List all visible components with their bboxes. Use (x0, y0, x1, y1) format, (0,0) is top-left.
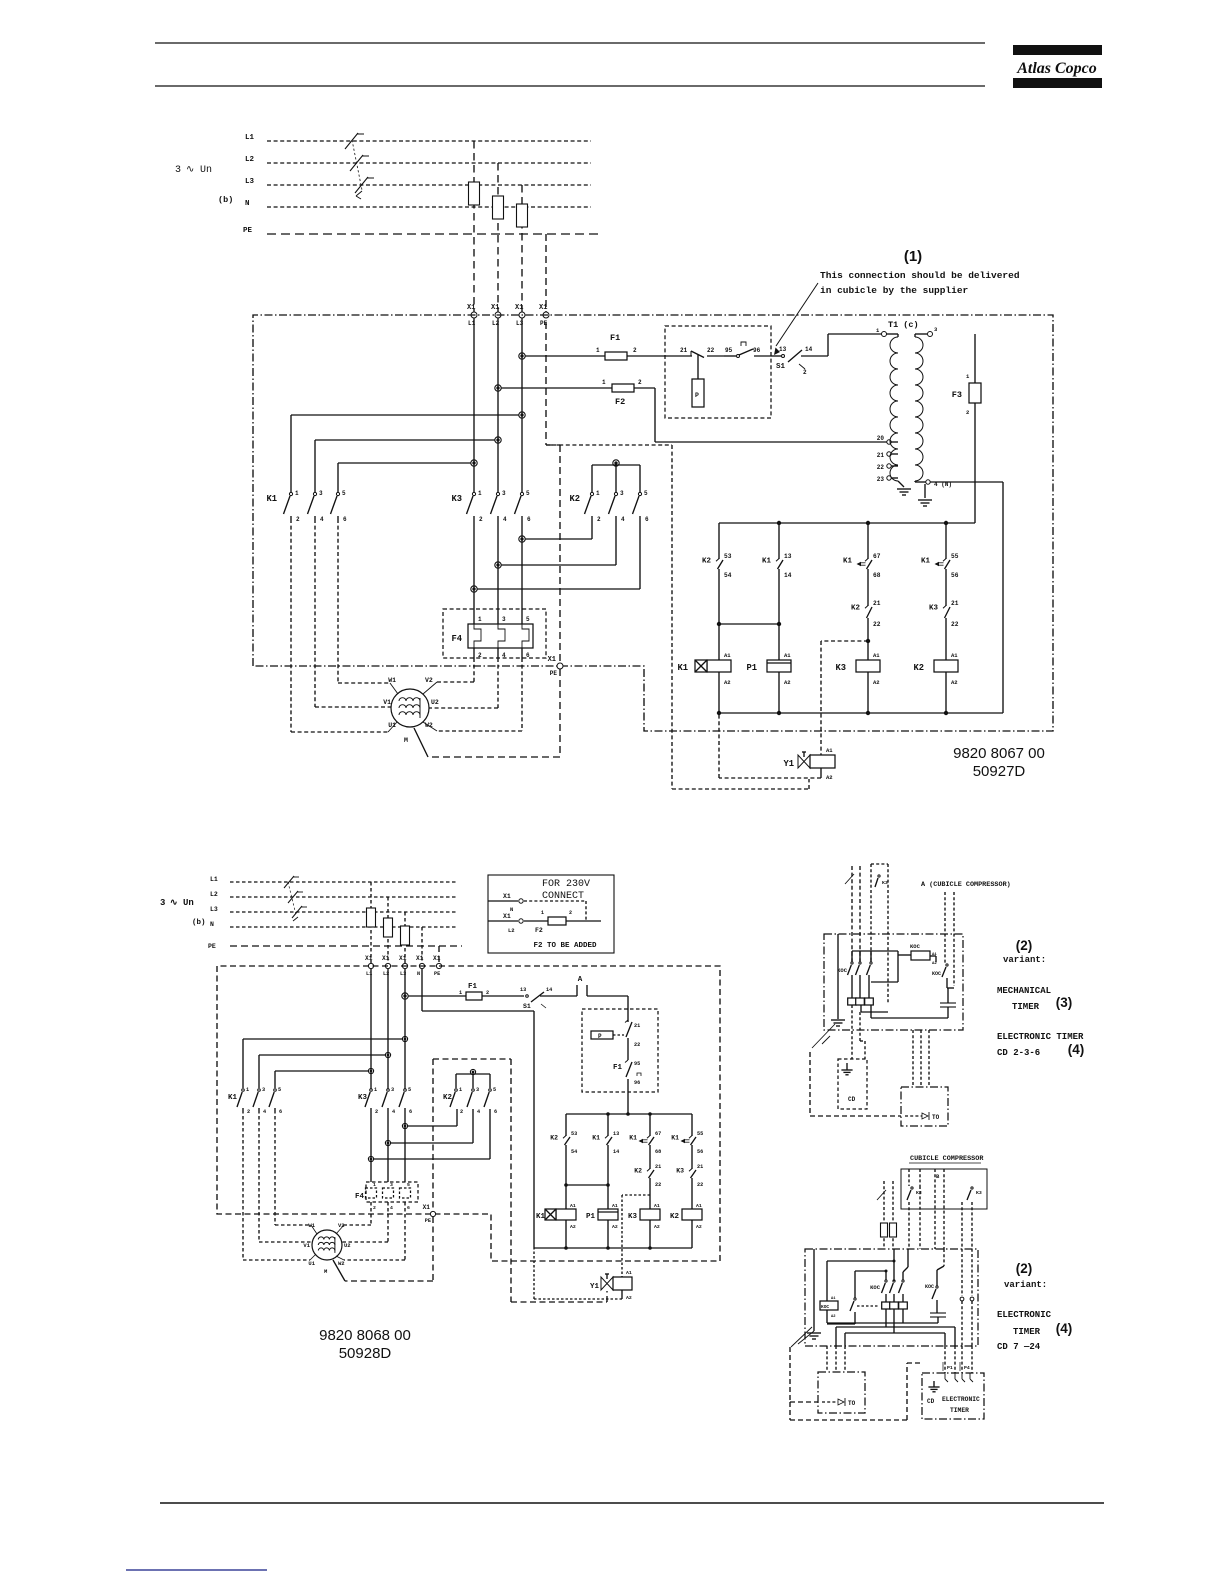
svg-text:PE: PE (434, 971, 440, 977)
svg-text:1: 1 (478, 616, 482, 623)
svg-text:B: B (936, 1173, 940, 1180)
svg-text:A2: A2 (654, 1224, 660, 1230)
svg-text:(b): (b) (192, 919, 206, 927)
svg-text:2: 2 (569, 910, 572, 916)
svg-text:P1: P1 (746, 663, 757, 673)
svg-text:A1: A1 (612, 1203, 618, 1209)
svg-text:A1: A1 (696, 1203, 702, 1209)
svg-text:1: 1 (459, 1087, 462, 1093)
svg-text:A1: A1 (784, 652, 791, 659)
svg-text:1: 1 (876, 327, 880, 334)
svg-text:L2: L2 (245, 156, 255, 164)
svg-text:K3: K3 (628, 1213, 638, 1221)
svg-text:13: 13 (613, 1131, 619, 1137)
svg-text:A1: A1 (831, 1297, 836, 1301)
svg-text:3: 3 (390, 1182, 393, 1188)
svg-text:(4): (4) (1056, 1321, 1073, 1336)
svg-text:K3: K3 (929, 605, 939, 613)
svg-text:54: 54 (571, 1149, 577, 1155)
svg-text:TIMER: TIMER (950, 1407, 969, 1414)
svg-text:4: 4 (392, 1109, 395, 1115)
svg-text:P: P (598, 1033, 602, 1040)
svg-text:P1: P1 (586, 1213, 596, 1221)
svg-text:W1: W1 (388, 677, 396, 684)
svg-text:K2: K2 (702, 558, 712, 566)
svg-text:1: 1 (596, 490, 600, 497)
svg-text:CD: CD (927, 1398, 935, 1405)
svg-text:A2: A2 (696, 1224, 702, 1230)
svg-text:6: 6 (527, 516, 531, 523)
svg-text:A2: A2 (784, 679, 791, 686)
svg-text:PE: PE (550, 670, 558, 677)
svg-text:F1: F1 (610, 333, 620, 343)
svg-text:2: 2 (597, 516, 601, 523)
svg-text:(4): (4) (1068, 1042, 1085, 1057)
svg-text:A1: A1 (654, 1203, 660, 1209)
svg-text:2: 2 (638, 379, 642, 386)
svg-text:ELECTRONIC: ELECTRONIC (997, 1310, 1052, 1320)
svg-text:1: 1 (373, 1182, 376, 1188)
svg-text:K2: K2 (634, 1168, 642, 1175)
svg-text:14: 14 (805, 346, 813, 353)
svg-text:X1: X1 (423, 1204, 431, 1211)
svg-text:4: 4 (263, 1109, 266, 1115)
svg-text:22: 22 (873, 621, 881, 628)
svg-text:54: 54 (724, 572, 732, 579)
svg-text:S1: S1 (776, 363, 786, 371)
svg-text:1: 1 (966, 373, 970, 380)
svg-text:X1: X1 (399, 955, 407, 962)
svg-text:F4: F4 (355, 1193, 365, 1201)
svg-text:P1: P1 (947, 1365, 953, 1371)
svg-text:A1: A1 (724, 652, 731, 659)
svg-text:2: 2 (478, 652, 482, 659)
svg-text:1: 1 (295, 490, 299, 497)
svg-text:3: 3 (319, 490, 323, 497)
svg-text:∿: ∿ (186, 165, 194, 176)
svg-text:L1: L1 (245, 134, 255, 142)
svg-text:K3: K3 (451, 494, 462, 504)
svg-text:21: 21 (877, 452, 885, 459)
svg-text:5: 5 (526, 490, 530, 497)
svg-text:PE: PE (540, 320, 548, 327)
svg-text:N: N (510, 906, 513, 913)
svg-text:2: 2 (486, 990, 489, 996)
svg-text:55: 55 (951, 553, 959, 560)
svg-text:M: M (324, 1268, 328, 1275)
svg-text:2: 2 (375, 1109, 378, 1115)
svg-text:20: 20 (877, 435, 885, 442)
svg-text:2: 2 (247, 1109, 250, 1115)
svg-text:22: 22 (707, 347, 715, 354)
svg-text:3: 3 (175, 165, 181, 176)
svg-text:K2: K2 (851, 605, 861, 613)
svg-text:9820 8068 00: 9820 8068 00 (319, 1327, 411, 1344)
svg-text:50928D: 50928D (339, 1345, 392, 1362)
svg-text:5: 5 (493, 1087, 496, 1093)
svg-text:in cubicle by the supplier: in cubicle by the supplier (820, 285, 969, 296)
svg-text:3: 3 (160, 898, 165, 908)
svg-text:4: 4 (621, 516, 625, 523)
svg-text:N: N (245, 200, 250, 208)
svg-text:K1: K1 (592, 1135, 600, 1142)
svg-text:1: 1 (602, 379, 606, 386)
svg-text:W1: W1 (308, 1222, 315, 1229)
svg-text:5: 5 (278, 1087, 281, 1093)
svg-text:S1: S1 (523, 1003, 531, 1010)
svg-text:F1: F1 (613, 1064, 623, 1072)
svg-text:Y1: Y1 (590, 1283, 600, 1291)
svg-text:Un: Un (200, 165, 212, 176)
svg-text:TIMER: TIMER (1013, 1327, 1041, 1337)
svg-text:3: 3 (476, 1087, 479, 1093)
svg-text:M: M (404, 737, 408, 744)
svg-text:F4: F4 (451, 634, 462, 644)
svg-text:1: 1 (541, 910, 544, 916)
svg-text:4: 4 (477, 1109, 480, 1115)
svg-text:21: 21 (655, 1164, 661, 1170)
svg-text:21: 21 (697, 1164, 703, 1170)
svg-text:A1: A1 (951, 652, 958, 659)
svg-text:3: 3 (262, 1087, 265, 1093)
svg-text:X1: X1 (433, 955, 441, 962)
svg-text:(2): (2) (1016, 1261, 1033, 1276)
svg-text:U1: U1 (308, 1260, 315, 1267)
svg-text:96: 96 (753, 347, 761, 354)
svg-text:21: 21 (873, 600, 881, 607)
svg-text:N: N (417, 971, 420, 977)
svg-text:X1: X1 (548, 656, 556, 664)
svg-text:V1: V1 (383, 699, 391, 706)
svg-text:95: 95 (634, 1061, 640, 1067)
svg-text:A2: A2 (873, 679, 880, 686)
svg-text:6: 6 (526, 652, 530, 659)
svg-text:K3: K3 (676, 1168, 684, 1175)
svg-text:A1: A1 (826, 747, 833, 754)
svg-text:K1: K1 (762, 558, 772, 566)
svg-text:A2: A2 (831, 1315, 836, 1319)
svg-text:KOC: KOC (821, 1304, 829, 1310)
svg-text:(2): (2) (1016, 938, 1033, 953)
svg-text:4: 4 (503, 516, 507, 523)
svg-text:95: 95 (725, 347, 733, 354)
svg-text:1: 1 (478, 490, 482, 497)
svg-text:F3: F3 (952, 390, 962, 400)
svg-text:5: 5 (526, 616, 530, 623)
svg-text:3: 3 (934, 326, 938, 333)
svg-text:K3: K3 (835, 663, 846, 673)
svg-text:∿: ∿ (170, 898, 178, 908)
svg-text:K2: K2 (670, 1213, 680, 1221)
svg-text:A2: A2 (612, 1224, 618, 1230)
svg-text:K3: K3 (358, 1094, 368, 1102)
svg-text:6: 6 (494, 1109, 497, 1115)
svg-text:2: 2 (296, 516, 300, 523)
svg-text:53: 53 (571, 1131, 577, 1137)
svg-text:F2 TO BE ADDED: F2 TO BE ADDED (533, 942, 597, 950)
svg-text:FOR 230V: FOR 230V (542, 879, 590, 890)
svg-text:5: 5 (408, 1087, 411, 1093)
svg-text:A1: A1 (570, 1203, 576, 1209)
svg-text:MECHANICAL: MECHANICAL (997, 986, 1051, 996)
svg-text:5: 5 (342, 490, 346, 497)
svg-text:K2: K2 (443, 1094, 453, 1102)
svg-text:3: 3 (391, 1087, 394, 1093)
svg-text:13: 13 (784, 553, 792, 560)
svg-text:A1: A1 (626, 1270, 632, 1276)
svg-text:5: 5 (644, 490, 648, 497)
svg-text:A2: A2 (626, 1295, 632, 1301)
svg-text:A (CUBICLE COMPRESSOR): A (CUBICLE COMPRESSOR) (921, 881, 1011, 889)
svg-text:variant:: variant: (1004, 1280, 1047, 1290)
svg-text:4: 4 (502, 652, 506, 659)
svg-text:9820 8067 00: 9820 8067 00 (953, 745, 1045, 762)
svg-text:Atlas Copco: Atlas Copco (1016, 60, 1097, 77)
svg-text:22: 22 (697, 1182, 703, 1188)
svg-text:ELECTRONIC TIMER: ELECTRONIC TIMER (997, 1032, 1084, 1042)
svg-text:KOC: KOC (925, 1284, 934, 1290)
svg-text:22: 22 (634, 1042, 640, 1048)
svg-text:K1: K1 (921, 558, 931, 566)
svg-text:22: 22 (877, 464, 885, 471)
svg-text:3: 3 (502, 616, 506, 623)
svg-text:X1: X1 (365, 955, 373, 962)
svg-text:21: 21 (634, 1023, 640, 1029)
svg-text:K3: K3 (916, 1190, 922, 1196)
svg-text:2: 2 (803, 369, 807, 376)
svg-text:(1): (1) (904, 248, 922, 265)
svg-text:KOC: KOC (932, 971, 941, 977)
svg-text:Y1: Y1 (783, 759, 794, 769)
svg-text:P: P (695, 392, 699, 399)
svg-text:X1: X1 (503, 893, 511, 900)
svg-text:P4: P4 (964, 1365, 970, 1371)
svg-text:14: 14 (546, 987, 552, 993)
svg-text:13: 13 (779, 346, 787, 353)
svg-text:PE: PE (208, 943, 216, 950)
svg-text:U2: U2 (431, 699, 439, 706)
svg-text:4: 4 (390, 1205, 393, 1211)
svg-text:U2: U2 (344, 1242, 351, 1249)
svg-text:L3: L3 (245, 178, 255, 186)
svg-text:96: 96 (634, 1080, 640, 1086)
svg-text:F2: F2 (535, 927, 543, 934)
svg-text:V1: V1 (303, 1242, 310, 1249)
svg-text:53: 53 (724, 553, 732, 560)
svg-text:2: 2 (966, 409, 969, 416)
svg-text:ELECTRONIC: ELECTRONIC (942, 1396, 980, 1403)
svg-text:A: A (578, 976, 583, 984)
svg-text:K2: K2 (913, 663, 924, 673)
svg-text:K3: K3 (976, 1190, 982, 1196)
svg-text:A1: A1 (873, 652, 880, 659)
svg-text:A2: A2 (826, 774, 833, 781)
svg-text:PE: PE (425, 1218, 431, 1224)
svg-text:K3: K3 (882, 880, 888, 886)
svg-text:KOC: KOC (870, 1284, 881, 1291)
svg-text:67: 67 (655, 1131, 661, 1137)
svg-text:50927D: 50927D (973, 763, 1026, 780)
svg-text:V2: V2 (425, 677, 433, 684)
svg-text:1: 1 (374, 1087, 377, 1093)
svg-text:variant:: variant: (1003, 955, 1046, 965)
svg-text:6: 6 (645, 516, 649, 523)
svg-text:L2: L2 (210, 891, 218, 898)
svg-text:3: 3 (620, 490, 624, 497)
svg-text:K1: K1 (629, 1135, 637, 1142)
svg-text:68: 68 (873, 572, 881, 579)
svg-text:KOC: KOC (910, 943, 921, 950)
svg-text:4: 4 (320, 516, 324, 523)
svg-text:A2: A2 (570, 1224, 576, 1230)
svg-text:21: 21 (680, 347, 688, 354)
svg-text:14: 14 (613, 1149, 619, 1155)
svg-text:N: N (210, 921, 214, 928)
svg-text:L2: L2 (508, 927, 515, 934)
svg-text:X1: X1 (382, 955, 390, 962)
svg-text:TIMER: TIMER (1012, 1002, 1040, 1012)
svg-text:A2: A2 (724, 679, 731, 686)
svg-text:K2: K2 (550, 1135, 558, 1142)
svg-text:1: 1 (246, 1087, 249, 1093)
svg-text:CD 7 —24: CD 7 —24 (997, 1342, 1041, 1352)
svg-text:F1: F1 (468, 983, 478, 991)
svg-text:L1: L1 (210, 876, 218, 883)
svg-text:PE: PE (243, 227, 253, 235)
svg-text:KOC: KOC (837, 967, 848, 974)
svg-text:2: 2 (373, 1205, 376, 1211)
svg-text:Un: Un (183, 898, 194, 908)
svg-text:K1: K1 (266, 494, 277, 504)
svg-text:X1: X1 (503, 913, 511, 920)
svg-text:67: 67 (873, 553, 881, 560)
svg-text:14: 14 (784, 572, 792, 579)
svg-text:K1: K1 (677, 663, 688, 673)
svg-text:56: 56 (951, 572, 959, 579)
svg-text:X1: X1 (539, 304, 547, 312)
svg-text:6: 6 (409, 1109, 412, 1115)
svg-text:K1: K1 (843, 558, 853, 566)
svg-text:X1: X1 (491, 304, 499, 312)
svg-text:X1: X1 (515, 304, 523, 312)
svg-text:X1: X1 (416, 955, 424, 962)
svg-text:TO: TO (848, 1400, 856, 1407)
svg-text:This connection should be deli: This connection should be delivered (820, 270, 1020, 281)
svg-text:1: 1 (596, 347, 600, 354)
svg-text:13: 13 (520, 987, 526, 993)
svg-text:22: 22 (655, 1182, 661, 1188)
svg-text:K1: K1 (228, 1094, 238, 1102)
svg-text:2: 2 (633, 347, 637, 354)
svg-text:56: 56 (697, 1149, 703, 1155)
svg-text:22: 22 (951, 621, 959, 628)
svg-text:6: 6 (279, 1109, 282, 1115)
svg-text:K1: K1 (536, 1213, 546, 1221)
svg-text:F2: F2 (615, 397, 625, 407)
svg-text:6: 6 (407, 1205, 410, 1211)
svg-text:6: 6 (343, 516, 347, 523)
svg-text:X1: X1 (467, 304, 475, 312)
svg-text:CD: CD (848, 1096, 856, 1103)
svg-text:A2: A2 (932, 962, 937, 966)
svg-text:W2: W2 (338, 1260, 345, 1267)
svg-text:2: 2 (460, 1109, 463, 1115)
svg-text:2: 2 (479, 516, 483, 523)
svg-text:CD 2-3-6: CD 2-3-6 (997, 1048, 1040, 1058)
svg-text:21: 21 (951, 600, 959, 607)
svg-text:TO: TO (932, 1114, 940, 1121)
svg-text:(b): (b) (218, 195, 233, 205)
svg-text:L3: L3 (210, 906, 218, 913)
svg-text:55: 55 (697, 1131, 703, 1137)
svg-text:1: 1 (459, 990, 462, 996)
svg-text:A2: A2 (951, 679, 958, 686)
svg-text:CUBICLE COMPRESSOR: CUBICLE COMPRESSOR (910, 1155, 984, 1163)
svg-text:3: 3 (502, 490, 506, 497)
svg-text:5: 5 (407, 1182, 410, 1188)
svg-text:68: 68 (655, 1149, 661, 1155)
svg-text:T1 (c): T1 (c) (888, 320, 919, 330)
svg-text:K1: K1 (671, 1135, 679, 1142)
svg-text:23: 23 (877, 476, 885, 483)
svg-text:(3): (3) (1056, 995, 1073, 1010)
svg-text:K2: K2 (569, 494, 580, 504)
